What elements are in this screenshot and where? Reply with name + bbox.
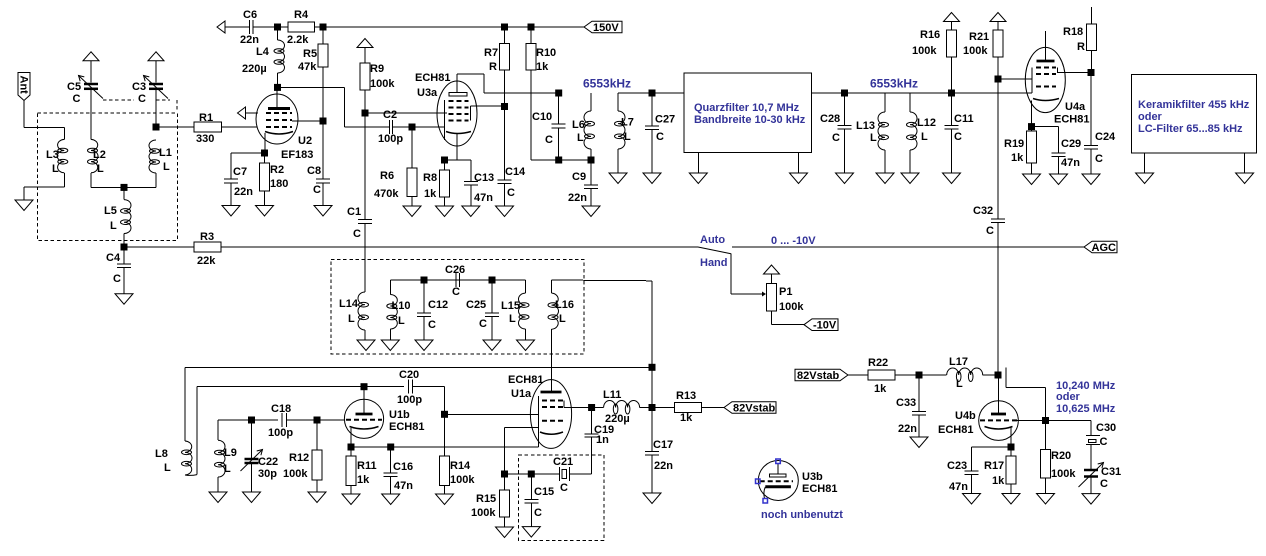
pin square U3b grid <box>756 479 761 484</box>
junction U2 cathode <box>261 150 268 157</box>
capacitor C6 <box>250 20 254 34</box>
label R3 <box>197 231 216 267</box>
capacitor C23 <box>965 447 979 494</box>
svg-text:C: C <box>545 134 553 146</box>
resistor R2 <box>260 153 270 206</box>
capacitor C30 (special) <box>1086 421 1100 470</box>
svg-text:R10: R10 <box>536 47 556 59</box>
inductor L12 <box>907 93 918 173</box>
wire R10 to tank bottom <box>531 159 591 161</box>
wire L2 bottom to junction <box>91 173 124 188</box>
junction R5 screen C8 <box>320 118 327 125</box>
svg-text:R22: R22 <box>868 357 888 369</box>
svg-text:Auto: Auto <box>700 234 725 246</box>
label L7 <box>621 117 634 144</box>
svg-text:22n: 22n <box>654 460 673 472</box>
label L12 <box>917 117 936 143</box>
ground (C9) <box>582 206 600 217</box>
svg-text:R11: R11 <box>357 460 377 472</box>
svg-text:C17: C17 <box>653 439 673 451</box>
label L3 <box>46 149 59 175</box>
junction C28 <box>841 90 848 97</box>
ground (C22) <box>243 492 261 503</box>
svg-text:22n: 22n <box>234 186 253 198</box>
ground (L10) <box>381 340 399 351</box>
ground (C8) <box>314 206 332 217</box>
resistor R13 <box>652 403 724 413</box>
capacitor C21 (special) <box>559 467 591 481</box>
pin square U3b cathode <box>763 499 768 504</box>
junction C2/R6 grid1 <box>409 124 416 131</box>
capacitor C13 <box>464 160 478 206</box>
svg-text:R: R <box>489 61 497 73</box>
ground (R14) <box>436 494 454 505</box>
dashed box C15/C21 <box>519 455 604 541</box>
svg-text:L6: L6 <box>572 119 585 131</box>
ground (R12) <box>308 492 326 503</box>
label R17 <box>984 460 1005 487</box>
label C4 <box>106 252 121 285</box>
wire L3 bottom to ground <box>24 173 64 200</box>
label Keramikfilter text <box>1138 99 1250 135</box>
svg-text:C25: C25 <box>466 299 486 311</box>
junction C15 <box>528 471 535 478</box>
ground (keramik right) <box>1236 153 1254 183</box>
svg-text:L12: L12 <box>917 117 936 129</box>
svg-text:L: L <box>956 378 963 390</box>
tube U4a ECH81 (heptode) <box>1025 31 1065 127</box>
label C29 <box>1061 138 1081 169</box>
junction C22 <box>248 417 255 424</box>
label C24 <box>1095 131 1116 165</box>
svg-text:180: 180 <box>270 178 288 190</box>
svg-text:C10: C10 <box>532 111 552 123</box>
label 6553kHz (1st IF) <box>583 77 631 91</box>
svg-text:C20: C20 <box>399 369 419 381</box>
label C32 <box>973 205 994 237</box>
svg-text:Keramikfilter 455 kHz: Keramikfilter 455 kHz <box>1138 99 1250 111</box>
resistor R19 <box>1027 127 1037 174</box>
junction C25 <box>489 277 496 284</box>
wire grid node C3/L1 to R1 <box>156 126 194 128</box>
wire AGC vertical C32 riser <box>997 79 999 219</box>
label C11 <box>954 113 974 143</box>
svg-text:C: C <box>138 93 146 105</box>
svg-text:100k: 100k <box>450 474 475 486</box>
ground (R2) <box>256 206 274 217</box>
svg-text:C4: C4 <box>106 252 121 264</box>
svg-text:C18: C18 <box>271 403 291 415</box>
label R5 <box>298 48 317 73</box>
dashed box antenna band filter <box>37 113 177 240</box>
svg-text:100p: 100p <box>397 394 422 406</box>
wire R22 to L17 <box>919 374 947 376</box>
label R22 <box>868 357 888 395</box>
svg-text:C: C <box>832 132 840 144</box>
svg-text:47n: 47n <box>1061 157 1080 169</box>
svg-text:C6: C6 <box>243 9 257 21</box>
svg-text:L: L <box>870 132 877 144</box>
block Quarzfilter <box>684 73 811 153</box>
capacitor C25 <box>485 280 499 340</box>
capacitor C7 <box>224 179 238 206</box>
inductor L3 <box>57 139 68 172</box>
svg-text:1k: 1k <box>680 412 693 424</box>
tube U2 EF183 <box>256 87 298 153</box>
label C6 <box>240 9 259 46</box>
svg-text:22n: 22n <box>568 192 587 204</box>
svg-text:L8: L8 <box>155 448 168 460</box>
tube U1b ECH81 (triode) <box>344 387 383 447</box>
capacitor C29 <box>1052 127 1066 174</box>
node -10V flag <box>804 319 838 332</box>
svg-text:150V: 150V <box>593 22 619 34</box>
ground (C25) <box>483 340 501 351</box>
ground (C14) <box>496 206 514 217</box>
label C14 <box>505 166 526 199</box>
svg-text:C16: C16 <box>393 461 413 473</box>
inductor L8 <box>182 367 198 475</box>
svg-text:R5: R5 <box>303 48 317 60</box>
wire C15/C21 row <box>505 473 560 475</box>
resistor R1 <box>194 122 222 132</box>
label R16 <box>912 29 940 57</box>
svg-text:22n: 22n <box>898 423 917 435</box>
svg-text:C: C <box>113 273 121 285</box>
resistor R5 <box>318 27 328 121</box>
svg-text:6553kHz: 6553kHz <box>583 77 631 91</box>
svg-text:C33: C33 <box>896 397 916 409</box>
node 150V flag <box>584 21 622 34</box>
svg-text:1k: 1k <box>874 383 887 395</box>
ground (C23) <box>963 494 981 505</box>
label C20 <box>397 369 422 406</box>
junction C11/R16 <box>948 90 955 97</box>
svg-text:100p: 100p <box>378 133 403 145</box>
svg-text:10,625 MHz: 10,625 MHz <box>1056 403 1116 415</box>
junction L17/U4b anode <box>995 372 1002 379</box>
junction coils common <box>121 184 128 191</box>
svg-text:30p: 30p <box>258 468 277 480</box>
wire cathode to C23 <box>972 446 1012 448</box>
wire U4b grid line <box>1017 420 1046 422</box>
capacitor C22 (trimmer 30p) <box>241 420 263 492</box>
svg-text:47n: 47n <box>394 480 413 492</box>
svg-text:R20: R20 <box>1051 450 1071 462</box>
node AGC flag <box>1084 241 1117 254</box>
junction C19 on anode line <box>588 404 595 411</box>
junction L4 anode <box>274 84 281 91</box>
wire P1 to -10V flag <box>772 311 805 325</box>
node Ant (antenna input flag) <box>18 73 31 101</box>
label L6 <box>572 119 585 144</box>
wire top rail to 150V flag <box>323 26 584 28</box>
label R21 <box>963 31 989 57</box>
ground (C15) <box>522 527 540 538</box>
label C23 <box>947 460 968 493</box>
wire C22 to C18 <box>252 419 279 421</box>
svg-text:22n: 22n <box>240 34 259 46</box>
label C30 <box>1096 422 1116 448</box>
svg-text:C: C <box>1095 153 1103 165</box>
wire Ant to L3 <box>24 101 64 140</box>
label C13 <box>474 172 494 204</box>
label L14 <box>339 298 359 325</box>
ground (antenna) <box>15 200 33 211</box>
svg-text:C13: C13 <box>474 172 494 184</box>
wire U3a cathode row <box>445 159 471 161</box>
junction R15/C15 node <box>501 471 508 478</box>
svg-text:L: L <box>110 220 117 232</box>
svg-text:R14: R14 <box>450 460 471 472</box>
label C22 <box>258 456 278 480</box>
junction L11 out <box>649 404 656 411</box>
inductor L7 <box>615 93 626 173</box>
junction AGC takeoff <box>121 244 128 251</box>
svg-text:C30: C30 <box>1096 422 1116 434</box>
svg-text:100k: 100k <box>370 78 395 90</box>
svg-text:U1a: U1a <box>511 388 532 400</box>
label C16 <box>393 461 413 492</box>
label C18 <box>268 403 293 439</box>
svg-text:C1: C1 <box>347 206 361 218</box>
capacitor C26 <box>456 273 460 287</box>
wire L4/anode to C2 corner <box>278 87 390 127</box>
svg-text:C7: C7 <box>233 166 247 178</box>
wire L7 tank top <box>618 92 684 94</box>
capacitor C2 <box>390 120 393 134</box>
label L16 <box>555 299 574 325</box>
resistor R22 <box>848 370 919 380</box>
inductor L16 <box>548 280 559 392</box>
svg-text:L15: L15 <box>501 300 520 312</box>
capacitor C14 <box>498 107 512 206</box>
inductor L14 <box>358 292 369 341</box>
label C8 <box>307 165 321 196</box>
label C25 <box>466 299 487 330</box>
label L13 <box>856 120 877 144</box>
inductor L15 <box>518 280 529 340</box>
svg-text:R15: R15 <box>476 493 496 505</box>
ground (L9) <box>209 492 227 503</box>
svg-text:C: C <box>954 131 962 143</box>
svg-text:R17: R17 <box>984 460 1004 472</box>
svg-text:C: C <box>656 131 664 143</box>
ground (C11) <box>943 173 961 184</box>
label L9 <box>224 447 237 475</box>
label C26 <box>445 264 465 298</box>
label L2 <box>93 149 106 175</box>
tube U3a ECH81 (heptode) <box>437 81 477 160</box>
wire C21 riser to C19 <box>591 437 593 474</box>
svg-text:U3b: U3b <box>802 471 823 483</box>
svg-text:L11: L11 <box>603 389 621 401</box>
junction R7/C14 screen <box>501 103 508 110</box>
wire U1b anode line <box>197 386 364 388</box>
label U4b <box>938 410 976 436</box>
capacitor C17 <box>645 408 659 494</box>
junction R21 grid <box>995 76 1002 83</box>
svg-text:2.2k: 2.2k <box>287 34 309 46</box>
svg-text:C29: C29 <box>1061 138 1081 150</box>
inductor L4 <box>274 27 285 87</box>
wire R1 to U2 grid <box>222 126 258 128</box>
junction R12 <box>314 417 321 424</box>
label 6553kHz (2nd) <box>870 77 918 91</box>
ground (R6) <box>403 206 421 217</box>
junction C33 <box>916 372 923 379</box>
label R12 <box>283 452 309 480</box>
svg-text:100k: 100k <box>779 301 804 313</box>
junction tank bottom C10 <box>555 157 562 164</box>
wire open stub <box>1006 368 1046 421</box>
svg-text:C: C <box>479 318 487 330</box>
wire arrow into top rail <box>217 21 249 33</box>
capacitor C5 (variable) <box>79 52 104 140</box>
svg-text:C: C <box>1100 478 1108 490</box>
wire L8 feedback line <box>185 366 652 368</box>
junction U4a cathode <box>1028 123 1035 130</box>
junction rail R10 <box>528 24 535 31</box>
wire L5 to AGC junction <box>123 234 125 248</box>
ground (R19) <box>1023 174 1041 185</box>
svg-text:R1: R1 <box>199 112 213 124</box>
ground (filter right) <box>790 153 808 184</box>
inductor L17 <box>947 368 998 382</box>
wire filter output line <box>811 92 1032 94</box>
svg-text:220µ: 220µ <box>242 63 267 75</box>
junction C27 <box>649 90 656 97</box>
svg-text:C28: C28 <box>820 113 840 125</box>
svg-text:C23: C23 <box>947 460 967 472</box>
power arrow above R9 <box>357 39 373 64</box>
wire U4a anode to R18 <box>1057 72 1091 74</box>
capacitor C10 <box>552 93 566 160</box>
svg-text:R6: R6 <box>380 170 394 182</box>
label noch unbenutzt <box>761 509 843 521</box>
svg-text:C: C <box>73 93 81 105</box>
wire U1b grid line <box>218 419 252 421</box>
junction U4b cathode <box>1008 444 1015 451</box>
svg-text:L1: L1 <box>159 147 172 159</box>
label U1b <box>389 409 424 433</box>
svg-text:U2: U2 <box>298 135 312 147</box>
resistor R17 <box>1006 447 1016 494</box>
label R19 <box>1004 138 1024 164</box>
wire osc tank top left <box>390 279 525 281</box>
resistor R14 <box>440 456 450 494</box>
ground (L14) <box>357 340 375 351</box>
capacitor C1 <box>358 220 372 292</box>
capacitor C9 <box>584 160 598 206</box>
ground (L7) <box>609 173 627 184</box>
ground (R17) <box>1002 494 1020 505</box>
svg-text:U4b: U4b <box>955 410 976 422</box>
ground (R20) <box>1037 494 1055 505</box>
capacitor C27 <box>645 93 659 173</box>
label R13 <box>676 390 696 424</box>
svg-text:Quarzfilter 10,7 MHz: Quarzfilter 10,7 MHz <box>694 102 800 114</box>
resistor R21 <box>993 30 1003 79</box>
resistor R7 <box>500 27 510 106</box>
svg-text:100p: 100p <box>268 427 293 439</box>
svg-text:100k: 100k <box>963 45 988 57</box>
label R15 <box>471 493 496 519</box>
label R14 <box>450 460 475 486</box>
svg-text:C2: C2 <box>383 109 397 121</box>
capacitor C15 <box>524 474 538 527</box>
svg-text:C31: C31 <box>1101 466 1121 478</box>
label C33 <box>896 397 917 435</box>
svg-text:C32: C32 <box>973 205 993 217</box>
capacitor C16 <box>384 447 398 494</box>
ground (C13) <box>462 206 480 217</box>
label C19 <box>594 424 614 446</box>
svg-text:L: L <box>52 163 59 175</box>
svg-text:L: L <box>224 463 231 475</box>
label R4 <box>287 9 309 46</box>
inductor L5 <box>121 187 132 233</box>
capacitor C12 <box>417 280 431 340</box>
wire C18 junction to U1b <box>317 419 344 421</box>
svg-text:noch unbenutzt: noch unbenutzt <box>761 509 843 521</box>
svg-text:100k: 100k <box>912 45 937 57</box>
svg-text:EF183: EF183 <box>281 149 313 161</box>
wire AGC bus left <box>221 246 698 248</box>
wire U3a anode up and over <box>457 74 559 93</box>
tube U4b ECH81 (triode) <box>979 375 1019 447</box>
svg-text:47k: 47k <box>298 61 317 73</box>
label L10 <box>392 300 411 327</box>
capacitor C28 <box>838 93 852 173</box>
label Hand <box>700 257 728 269</box>
wire osc tank top right <box>552 279 653 282</box>
label R9 <box>370 63 395 90</box>
label C5 <box>67 81 81 105</box>
label C9 <box>568 171 587 204</box>
wire cathode to C7 <box>231 153 265 179</box>
wire R15 riser to U1a <box>505 427 539 490</box>
junction C12 <box>421 277 428 284</box>
capacitor C19 <box>585 408 599 438</box>
svg-text:R9: R9 <box>370 63 384 75</box>
ground (C16) <box>382 494 400 505</box>
label U1a <box>508 374 543 400</box>
svg-text:1k: 1k <box>424 188 437 200</box>
svg-text:C5: C5 <box>67 81 81 93</box>
svg-text:C12: C12 <box>428 299 448 311</box>
wire screen to U2 <box>292 120 323 122</box>
junction U1b anode / C20 <box>361 383 368 390</box>
label L11 <box>603 389 630 425</box>
label C3 <box>132 81 146 105</box>
ground (C12) <box>415 340 433 351</box>
svg-text:1k: 1k <box>357 474 370 486</box>
junction rail L4/R4 <box>274 24 281 31</box>
ground (C33) <box>910 437 928 448</box>
svg-text:ECH81: ECH81 <box>938 424 973 436</box>
svg-text:L: L <box>163 161 170 173</box>
label L15 <box>501 300 520 325</box>
capacitor C33 <box>912 375 926 437</box>
svg-text:C: C <box>986 225 994 237</box>
junction rail R7 <box>501 24 508 31</box>
capacitor C3 (variable) <box>144 52 169 127</box>
label U4a <box>1054 101 1089 126</box>
svg-text:L: L <box>97 163 104 175</box>
svg-text:0 ... -10V: 0 ... -10V <box>771 235 816 247</box>
ground (filter left) <box>689 153 707 184</box>
